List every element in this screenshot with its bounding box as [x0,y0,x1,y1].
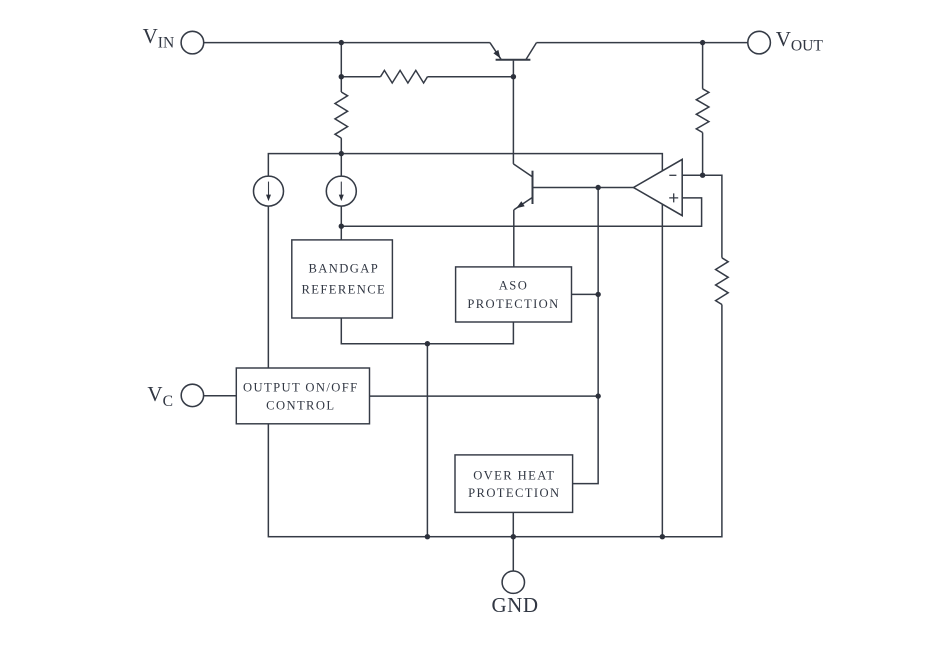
junction R1-R2 node [339,74,344,79]
svg-text:BANDGAP: BANDGAP [308,261,379,275]
resistor R4 (lower feedback divider) [716,258,729,305]
block OUTPUT ON/OFF CONTROL [236,368,369,424]
svg-text:VOUT: VOUT [776,27,824,55]
wire Q1 base down to Q2 collector [512,61,514,164]
svg-text:CONTROL: CONTROL [266,399,335,413]
terminal GND [502,571,524,593]
svg-text:PROTECTION: PROTECTION [468,486,560,500]
junction ON-OFF right / output line [595,393,600,398]
junction top rail / R3 feedback [700,40,705,45]
wire VIN-rail junction down to R1/R2 node [340,43,342,77]
wire top rail Q1 collector to VOUT [537,42,748,44]
IC boundary box [268,154,662,537]
wire VOUT junction down to R3 [702,43,704,89]
wire minus node right and down to R4 [703,175,722,258]
terminal VC [181,384,203,406]
current source I2 [326,176,356,206]
junction top rail / R2 [339,40,344,45]
wire minus input of op-amp [682,174,702,176]
junction bandgap bus / x427 line [425,341,430,346]
wire bandgap bottom bus to ASO bottom [341,318,513,344]
junction box corner / feedback bus [660,534,665,539]
wire R3 to minus input node [702,133,704,176]
wire ASO right to output line [572,293,599,295]
wire I2 node down into bandgap block [340,154,342,240]
junction R1 / Q1 base [511,74,516,79]
wire Q2 emitter down to ASO block [513,210,515,267]
svg-text:ASO: ASO [499,279,528,293]
wire op-amp output line down / overheat right [573,188,599,484]
wire plus rail from I2 node to op-amp plus input [341,198,701,226]
block OVER HEAT PROTECTION [455,455,573,513]
wire Q2 base to op-amp output [533,187,634,189]
svg-text:OVER HEAT: OVER HEAT [473,469,555,483]
junction I2 / plus rail [339,224,344,229]
junction op-amp output / Q2 base [595,185,600,190]
terminal VOUT [748,31,771,54]
junction ASO right / output line [595,292,600,297]
wire R4 down to ground bus extension [662,305,722,537]
wire ON/OFF right to output line [370,395,599,397]
block BANDGAP REFERENCE [292,240,393,318]
wire VC terminal to ON/OFF block [203,395,236,397]
wire x427 down to ground bus [426,344,428,537]
terminal VIN [181,31,204,54]
resistor R2 (vertical, node to box top) [335,77,348,154]
wire overheat bottom to GND terminal [512,512,514,571]
junction x427 / ground bus [425,534,430,539]
svg-text:OUTPUT ON/OFF: OUTPUT ON/OFF [243,381,359,395]
transistor Q2 (NPN driver) [513,164,532,211]
op-amp U1 [634,159,683,215]
resistor R3 (upper feedback divider) [696,89,709,133]
resistor R1 (horizontal, node to Q1 base) [341,70,513,83]
svg-text:VIN: VIN [143,24,175,51]
svg-text:REFERENCE: REFERENCE [301,282,386,296]
transistor Q1 (PNP pass transistor) [490,43,537,60]
svg-text:VC: VC [147,382,173,410]
svg-text:GND: GND [492,593,539,617]
junction R2 / box top edge [339,151,344,156]
junction minus input node [700,173,705,178]
wire top rail VIN to Q1 emitter [204,42,490,44]
svg-text:PROTECTION: PROTECTION [467,297,559,311]
current source I1 [254,176,284,206]
junction overheat / ground bus [511,534,516,539]
block ASO PROTECTION [456,267,572,322]
